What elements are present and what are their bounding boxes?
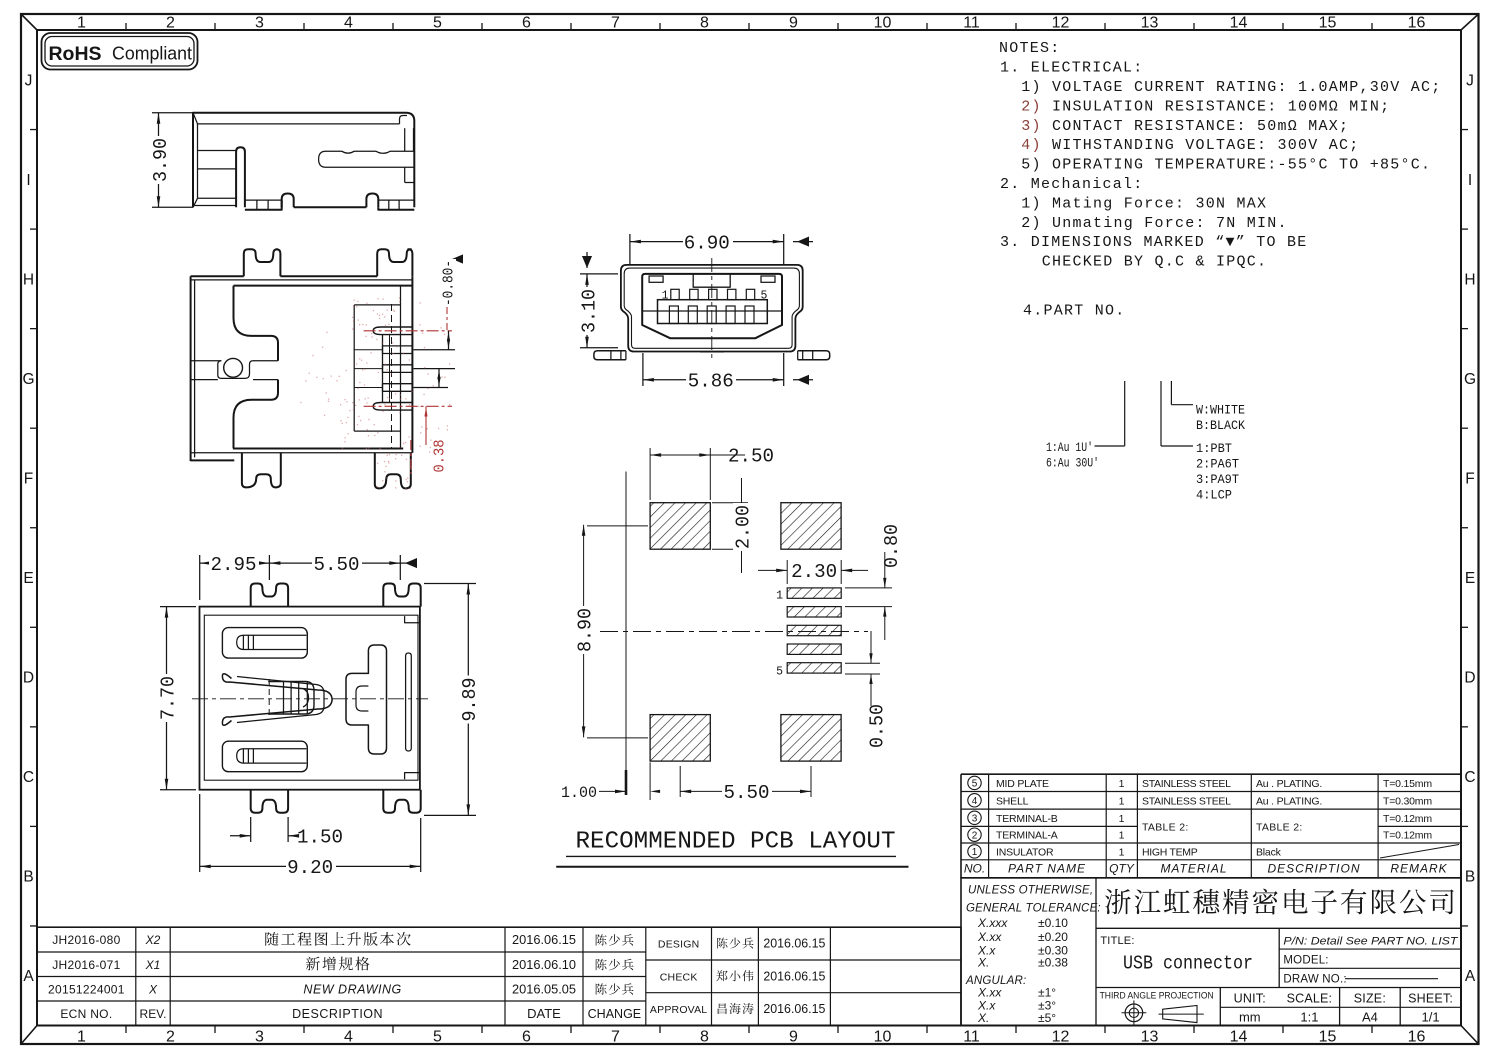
svg-text:1: 1 [662,290,669,303]
svg-text:MID PLATE: MID PLATE [996,778,1049,790]
svg-text:B: B [23,869,33,886]
svg-text:G: G [1464,371,1476,388]
svg-text:3: 3 [972,813,978,824]
svg-text:5.50: 5.50 [314,554,360,576]
svg-text:1: 1 [1119,778,1125,790]
svg-text:I: I [1468,172,1472,189]
svg-text:4: 4 [344,15,353,32]
svg-text:8.90: 8.90 [574,608,596,652]
svg-text:C: C [23,769,34,786]
svg-text:A: A [23,968,34,985]
svg-text:2016.06.15: 2016.06.15 [512,932,576,947]
svg-text:JH2016-071: JH2016-071 [52,958,120,972]
svg-text:4.PART NO.: 4.PART NO. [1023,303,1126,320]
svg-text:3. DIMENSIONS MARKED “▼” TO BE: 3. DIMENSIONS MARKED “▼” TO BE [1000,234,1308,251]
svg-text:6:Au 30U': 6:Au 30U' [1046,457,1099,471]
svg-text:2: 2 [972,830,978,841]
svg-text:1/1: 1/1 [1422,1010,1440,1025]
svg-text:CHECK: CHECK [660,971,698,983]
svg-text:X.: X. [977,1011,989,1025]
svg-text:1. ELECTRICAL:: 1. ELECTRICAL: [1000,60,1144,77]
svg-text:5: 5 [776,666,783,679]
svg-text:0.38: 0.38 [432,440,449,473]
svg-text:RoHS: RoHS [49,43,102,65]
svg-text:APPROVAL: APPROVAL [650,1004,707,1016]
svg-text:STAINLESS STEEL: STAINLESS STEEL [1142,795,1231,807]
svg-text:1: 1 [1119,830,1125,842]
svg-text:14: 14 [1230,15,1248,32]
svg-text:JH2016-080: JH2016-080 [52,933,120,947]
svg-text:1: 1 [77,15,86,32]
svg-text:13: 13 [1141,1029,1159,1046]
svg-text:D: D [1464,670,1475,687]
svg-text:DESCRIPTION: DESCRIPTION [292,1007,383,1021]
svg-text:2.30: 2.30 [791,561,837,583]
svg-text:±5°: ±5° [1038,1011,1056,1025]
svg-text:1: 1 [1119,846,1125,858]
svg-text:15: 15 [1319,15,1337,32]
svg-text:NOTES:: NOTES: [999,40,1061,57]
svg-text:UNLESS OTHERWISE,: UNLESS OTHERWISE, [968,885,1093,897]
svg-text:DESIGN: DESIGN [658,939,699,951]
svg-text:10: 10 [874,15,892,32]
svg-text:4: 4 [344,1029,353,1046]
svg-text:16: 16 [1408,1029,1426,1046]
svg-text:6: 6 [522,15,531,32]
svg-text:9: 9 [789,1029,798,1046]
svg-text:-0.80-: -0.80- [441,260,458,306]
svg-text:1:1: 1:1 [1300,1010,1318,1025]
svg-text:2:PA6T: 2:PA6T [1196,458,1239,472]
svg-text:3: 3 [255,15,264,32]
svg-text:Black: Black [1256,846,1282,858]
svg-text:T=0.12mm: T=0.12mm [1383,813,1432,825]
svg-text:1: 1 [77,1029,86,1046]
svg-text:Au . PLATING.: Au . PLATING. [1256,778,1322,790]
svg-text:3:PA9T: 3:PA9T [1196,473,1239,487]
svg-text:TERMINAL-B: TERMINAL-B [996,813,1058,825]
svg-text:TITLE:: TITLE: [1100,935,1134,947]
svg-text:2016.06.15: 2016.06.15 [763,969,825,983]
svg-text:1: 1 [776,589,783,602]
svg-text:6.90: 6.90 [684,233,730,255]
svg-text:H: H [1464,271,1475,288]
svg-text:3.90: 3.90 [150,138,172,182]
svg-text:RECOMMENDED PCB LAYOUT: RECOMMENDED PCB LAYOUT [576,829,896,856]
svg-text:3.10: 3.10 [578,289,600,333]
svg-text:X.xxx: X.xxx [977,916,1008,930]
svg-text:2016.06.15: 2016.06.15 [763,1002,825,1016]
svg-text:NEW DRAWING: NEW DRAWING [303,982,401,996]
svg-text:1.50: 1.50 [297,826,343,848]
svg-text:5: 5 [433,1029,442,1046]
svg-text:4) WITHSTANDING VOLTAGE: 300V: 4) WITHSTANDING VOLTAGE: 300V AC; [1011,137,1360,154]
svg-text:REV.: REV. [140,1007,167,1021]
svg-text:X.: X. [977,956,989,970]
svg-text:INSULATOR: INSULATOR [996,846,1054,858]
svg-text:A4: A4 [1362,1010,1378,1025]
svg-text:X.xx: X.xx [977,930,1002,944]
svg-text:SHEET:: SHEET: [1408,991,1453,1005]
svg-text:11: 11 [963,1029,980,1046]
svg-text:1) Mating Force: 30N MAX: 1) Mating Force: 30N MAX [1011,195,1267,212]
svg-text:TERMINAL-A: TERMINAL-A [996,830,1058,842]
svg-text:13: 13 [1141,15,1159,32]
svg-text:PART NAME: PART NAME [1008,862,1086,876]
svg-text:9.20: 9.20 [287,857,333,879]
svg-text:16: 16 [1408,15,1426,32]
svg-text:USB connector: USB connector [1123,953,1253,975]
svg-text:±0.20: ±0.20 [1038,930,1068,944]
svg-text:QTY: QTY [1109,862,1135,876]
svg-text:2016.06.10: 2016.06.10 [512,957,576,972]
svg-text:DESCRIPTION: DESCRIPTION [1267,862,1360,876]
svg-text:J: J [25,72,33,89]
svg-text:mm: mm [1239,1010,1261,1025]
svg-text:3: 3 [255,1029,264,1046]
svg-text:1: 1 [972,847,978,858]
svg-text:B:BLACK: B:BLACK [1196,419,1245,433]
svg-text:±0.38: ±0.38 [1038,956,1068,970]
svg-text:D: D [23,670,34,687]
svg-text:15: 15 [1319,1029,1337,1046]
svg-text:SHELL: SHELL [996,795,1029,807]
svg-text:X1: X1 [145,958,161,972]
svg-text:2) INSULATION RESISTANCE: 100M: 2) INSULATION RESISTANCE: 100MΩ MIN; [1011,98,1390,115]
svg-text:GENERAL TOLERANCE:: GENERAL TOLERANCE: [966,903,1101,915]
svg-text:±1°: ±1° [1038,986,1056,1000]
svg-text:Compliant: Compliant [112,44,192,64]
svg-text:T=0.15mm: T=0.15mm [1383,778,1432,790]
svg-text:DRAW NO.:: DRAW NO.: [1283,974,1346,986]
svg-text:11: 11 [963,15,980,32]
svg-text:F: F [1465,471,1474,488]
svg-text:1: 1 [1119,813,1125,825]
svg-text:P/N: Detail See PART NO. LIST: P/N: Detail See PART NO. LIST [1283,936,1458,948]
svg-text:1:Au 1U': 1:Au 1U' [1046,441,1093,455]
svg-text:5: 5 [433,15,442,32]
svg-text:±0.10: ±0.10 [1038,916,1068,930]
svg-text:G: G [22,371,34,388]
svg-text:2: 2 [166,15,175,32]
svg-text:T=0.30mm: T=0.30mm [1383,795,1432,807]
svg-text:5: 5 [761,290,768,303]
svg-text:2: 2 [166,1029,175,1046]
svg-text:6: 6 [522,1029,531,1046]
svg-text:4: 4 [972,796,978,807]
svg-text:2016.06.15: 2016.06.15 [763,937,825,951]
svg-text:X.xx: X.xx [977,986,1002,1000]
svg-text:2. Mechanical:: 2. Mechanical: [1000,176,1144,193]
svg-text:W:WHITE: W:WHITE [1196,404,1245,418]
svg-text:C: C [1464,769,1475,786]
svg-text:7: 7 [611,15,620,32]
svg-text:NO.: NO. [964,862,985,876]
svg-text:2.95: 2.95 [211,554,257,576]
svg-text:Au . PLATING.: Au . PLATING. [1256,795,1322,807]
svg-text:8: 8 [700,1029,709,1046]
svg-text:2.50: 2.50 [728,446,774,468]
svg-text:12: 12 [1052,15,1070,32]
svg-text:T=0.12mm: T=0.12mm [1383,830,1432,842]
svg-text:TABLE 2:: TABLE 2: [1142,822,1189,834]
svg-text:7.70: 7.70 [157,676,179,720]
svg-text:TABLE 2:: TABLE 2: [1256,822,1303,834]
svg-text:8: 8 [700,15,709,32]
svg-text:2) Unmating Force: 7N MIN.: 2) Unmating Force: 7N MIN. [1011,215,1288,232]
svg-text:10: 10 [874,1029,892,1046]
svg-text:1:PBT: 1:PBT [1196,442,1232,456]
svg-text:UNIT:: UNIT: [1234,991,1266,1005]
svg-text:E: E [1465,570,1475,587]
svg-text:1: 1 [1119,795,1125,807]
svg-text:9: 9 [789,15,798,32]
svg-text:H: H [23,271,34,288]
svg-text:5.86: 5.86 [688,371,734,393]
svg-text:F: F [24,471,33,488]
svg-text:9.89: 9.89 [459,678,481,722]
svg-text:MODEL:: MODEL: [1283,954,1328,966]
svg-text:REMARK: REMARK [1390,862,1447,876]
svg-text:ECN NO.: ECN NO. [60,1007,112,1021]
svg-text:5: 5 [972,778,978,789]
svg-text:HIGH TEMP: HIGH TEMP [1142,846,1198,858]
svg-text:5) OPERATING TEMPERATURE:-55°C: 5) OPERATING TEMPERATURE:-55°C TO +85°C. [1011,157,1431,174]
svg-text:E: E [23,570,33,587]
svg-text:X: X [148,982,158,996]
svg-text:I: I [26,172,30,189]
svg-text:3) CONTACT RESISTANCE: 50mΩ MA: 3) CONTACT RESISTANCE: 50mΩ MAX; [1011,118,1349,135]
svg-text:4:LCP: 4:LCP [1196,489,1232,503]
svg-text:B: B [1465,869,1475,886]
svg-text:J: J [1466,72,1474,89]
svg-text:5.50: 5.50 [724,782,770,804]
svg-text:12: 12 [1052,1029,1070,1046]
svg-text:SCALE:: SCALE: [1287,991,1333,1005]
svg-text:A: A [1465,968,1476,985]
svg-text:THIRD ANGLE PROJECTION: THIRD ANGLE PROJECTION [1100,991,1214,1001]
svg-text:1.00: 1.00 [561,784,597,802]
svg-text:DATE: DATE [527,1006,561,1021]
svg-text:2016.05.05: 2016.05.05 [512,981,576,996]
svg-text:CHECKED BY Q.C & IPQC.: CHECKED BY Q.C & IPQC. [1011,254,1267,271]
svg-text:7: 7 [611,1029,620,1046]
svg-text:1) VOLTAGE CURRENT RATING: 1.0: 1) VOLTAGE CURRENT RATING: 1.0AMP,30V AC… [1011,79,1442,96]
svg-text:20151224001: 20151224001 [48,982,125,996]
svg-text:14: 14 [1230,1029,1248,1046]
svg-text:2.00: 2.00 [732,505,754,549]
svg-text:STAINLESS STEEL: STAINLESS STEEL [1142,778,1231,790]
svg-text:0.80: 0.80 [881,524,903,568]
svg-text:CHANGE: CHANGE [588,1007,641,1021]
svg-text:SIZE:: SIZE: [1354,991,1386,1005]
svg-text:MATERIAL: MATERIAL [1160,862,1227,876]
svg-text:0.50: 0.50 [867,704,889,748]
svg-text:X2: X2 [145,933,161,947]
